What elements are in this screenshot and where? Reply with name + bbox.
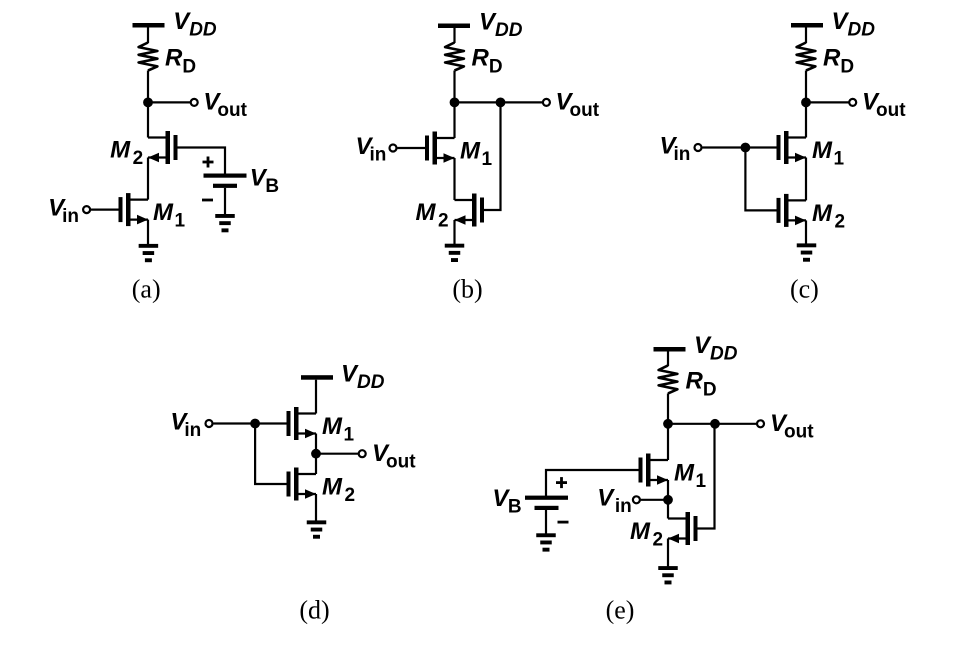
terminal Vout (c) <box>849 99 856 106</box>
wire M2 source to ground (e) <box>667 539 669 568</box>
wire M2 gate to battery (a) <box>178 148 226 174</box>
ground M2 (c) <box>797 243 817 261</box>
wire gate junction to M2 gate (c) <box>745 148 776 211</box>
transistor M2 (e) <box>668 512 698 545</box>
wire Vin to M1 gate (c) <box>702 146 776 148</box>
circuit (a) <box>48 8 279 303</box>
wire M1 source to ground (a) <box>147 220 149 245</box>
wire battery to ground (a) <box>224 188 226 215</box>
wire to Vout terminal (d) <box>316 453 362 455</box>
svg-text:VDD: VDD <box>173 8 217 41</box>
node output junction (d) <box>311 449 321 459</box>
circuit (d) <box>170 360 416 624</box>
wire RD to output node (a) <box>147 71 149 103</box>
node output junction (a) <box>143 98 153 108</box>
VDD rail (d) <box>301 375 333 380</box>
svg-text:Vout: Vout <box>203 89 247 122</box>
svg-text:(b): (b) <box>452 275 482 304</box>
svg-text:M1: M1 <box>674 460 707 493</box>
resistor RD (a) <box>139 43 158 71</box>
transistor M1 (b) <box>425 132 455 165</box>
wire to Vout terminal (c) <box>806 101 853 103</box>
wire gate junction to M2 gate (d) <box>255 424 286 485</box>
svg-text:VDD: VDD <box>832 8 876 41</box>
svg-text:VB: VB <box>492 485 521 518</box>
ground M1 (a) <box>139 244 159 262</box>
svg-text:Vout: Vout <box>862 89 906 122</box>
svg-text:Vout: Vout <box>372 440 416 473</box>
circuit (e) <box>492 332 814 624</box>
terminal Vout (a) <box>191 99 198 106</box>
wire VDD to M1 drain (d) <box>315 380 317 414</box>
wire output (e) <box>668 423 761 425</box>
svg-text:M2: M2 <box>110 137 143 170</box>
svg-text:VB: VB <box>250 165 279 198</box>
terminal Vout (d) <box>359 450 366 457</box>
wire M2 source to ground (d) <box>315 494 317 522</box>
svg-text:Vin: Vin <box>48 194 79 227</box>
terminal Vin (b) <box>390 145 397 152</box>
transistor M1 (c) <box>777 131 807 164</box>
wire output (b) <box>455 101 547 103</box>
wire node to M2 drain (a) <box>147 102 149 137</box>
transistor M1 (a) <box>119 193 149 226</box>
terminal Vin (e) <box>633 496 640 503</box>
svg-text:(e): (e) <box>606 596 635 625</box>
svg-text:VDD: VDD <box>341 360 385 393</box>
resistor RD (b) <box>445 43 464 71</box>
wire VDD to RD (a) <box>147 28 149 44</box>
wire M2 source to M1 drain (a) <box>147 158 149 200</box>
node feedback junction (e) <box>710 419 720 429</box>
svg-text:(c): (c) <box>790 275 819 304</box>
wire battery to ground (e) <box>545 510 547 535</box>
svg-text:Vout: Vout <box>556 89 600 122</box>
terminal Vin (c) <box>695 144 702 151</box>
terminal Vout (b) <box>543 99 550 106</box>
transistor M2 (c) <box>777 194 807 227</box>
terminal Vin (d) <box>206 420 213 427</box>
wire M2 source to ground (c) <box>805 220 807 245</box>
wire node to M1 drain (c) <box>805 102 807 137</box>
wire Vin to M1 gate (a) <box>91 209 119 211</box>
wire RD to output node (c) <box>805 71 807 103</box>
wire RD to output node (b) <box>453 71 455 103</box>
wire RD to output node (e) <box>667 393 669 423</box>
svg-text:VDD: VDD <box>479 9 523 42</box>
terminal Vin (a) <box>83 206 90 213</box>
node gate junction (c) <box>741 143 751 153</box>
svg-text:VDD: VDD <box>694 332 738 365</box>
svg-text:M2: M2 <box>416 199 449 232</box>
ground battery (a) <box>215 214 235 232</box>
wire node to M1 drain (b) <box>453 102 455 138</box>
wire node to M2 drain (d) <box>315 454 317 474</box>
wire VDD to RD (b) <box>453 28 455 43</box>
VDD rail (a) <box>133 23 165 28</box>
node gate junction (d) <box>250 419 260 429</box>
wire Vin to M1 gate (d) <box>213 422 286 424</box>
svg-text:Vout: Vout <box>770 410 814 443</box>
wire M2 source to ground (b) <box>453 220 455 245</box>
wire Vin to M1 gate (b) <box>397 147 425 149</box>
ground M2 (b) <box>445 244 465 262</box>
svg-text:M1: M1 <box>812 137 845 170</box>
transistor M2 (a) <box>148 131 178 164</box>
wire node to M1 drain (e) <box>667 424 669 460</box>
ground M2 (d) <box>307 520 327 538</box>
battery VB (a) <box>202 157 247 202</box>
svg-text:RD: RD <box>472 44 503 77</box>
node output junction (c) <box>801 98 811 108</box>
svg-text:M2: M2 <box>322 474 355 507</box>
wire M1 source to M2 drain (e) <box>667 480 669 519</box>
svg-text:M2: M2 <box>812 200 845 233</box>
svg-text:M1: M1 <box>322 413 355 446</box>
VDD rail (c) <box>791 23 823 28</box>
resistor RD (e) <box>659 365 678 393</box>
wire M2 gate to Vout (b) <box>484 102 501 210</box>
circuit (b) <box>356 9 600 304</box>
svg-text:Vin: Vin <box>660 132 691 165</box>
wire M1 source to M2 drain (b) <box>453 158 455 200</box>
svg-text:(a): (a) <box>132 275 161 304</box>
node feedback junction (b) <box>496 98 506 108</box>
svg-text:RD: RD <box>686 367 717 400</box>
svg-text:Vin: Vin <box>170 408 201 441</box>
resistor RD (c) <box>797 43 816 71</box>
svg-text:M1: M1 <box>153 199 186 232</box>
node drain junction (e) <box>663 419 673 429</box>
wire M1 source to output node (d) <box>315 434 317 454</box>
node source junction (e) <box>663 495 673 505</box>
wire M1 gate to battery (e) <box>546 470 639 496</box>
ground M2 (e) <box>658 566 678 584</box>
wire VDD to RD (e) <box>667 351 669 366</box>
svg-text:RD: RD <box>165 44 196 77</box>
transistor M2 (d) <box>287 468 317 501</box>
wire Vin to node (e) <box>641 499 668 501</box>
svg-text:RD: RD <box>823 44 854 77</box>
circuit (c) <box>660 8 907 303</box>
wire M1 source to M2 drain (c) <box>805 158 807 201</box>
wire VDD to RD (c) <box>805 28 807 44</box>
svg-text:Vin: Vin <box>356 133 387 166</box>
wire to Vout terminal (a) <box>148 101 194 103</box>
ground battery (e) <box>536 533 556 551</box>
terminal Vout (e) <box>757 420 764 427</box>
VDD rail (b) <box>438 24 470 29</box>
transistor M2 (b) <box>455 194 485 227</box>
VDD rail (e) <box>654 347 686 352</box>
wire M2 gate to Vout (e) <box>698 424 715 529</box>
battery VB (e) <box>525 477 569 523</box>
transistor M1 (d) <box>287 407 317 440</box>
svg-text:M2: M2 <box>630 518 663 551</box>
svg-text:Vin: Vin <box>597 485 631 518</box>
svg-text:(d): (d) <box>299 596 329 625</box>
transistor M1 (e) <box>639 454 669 487</box>
node drain junction (b) <box>450 98 460 108</box>
svg-text:M1: M1 <box>460 138 493 171</box>
